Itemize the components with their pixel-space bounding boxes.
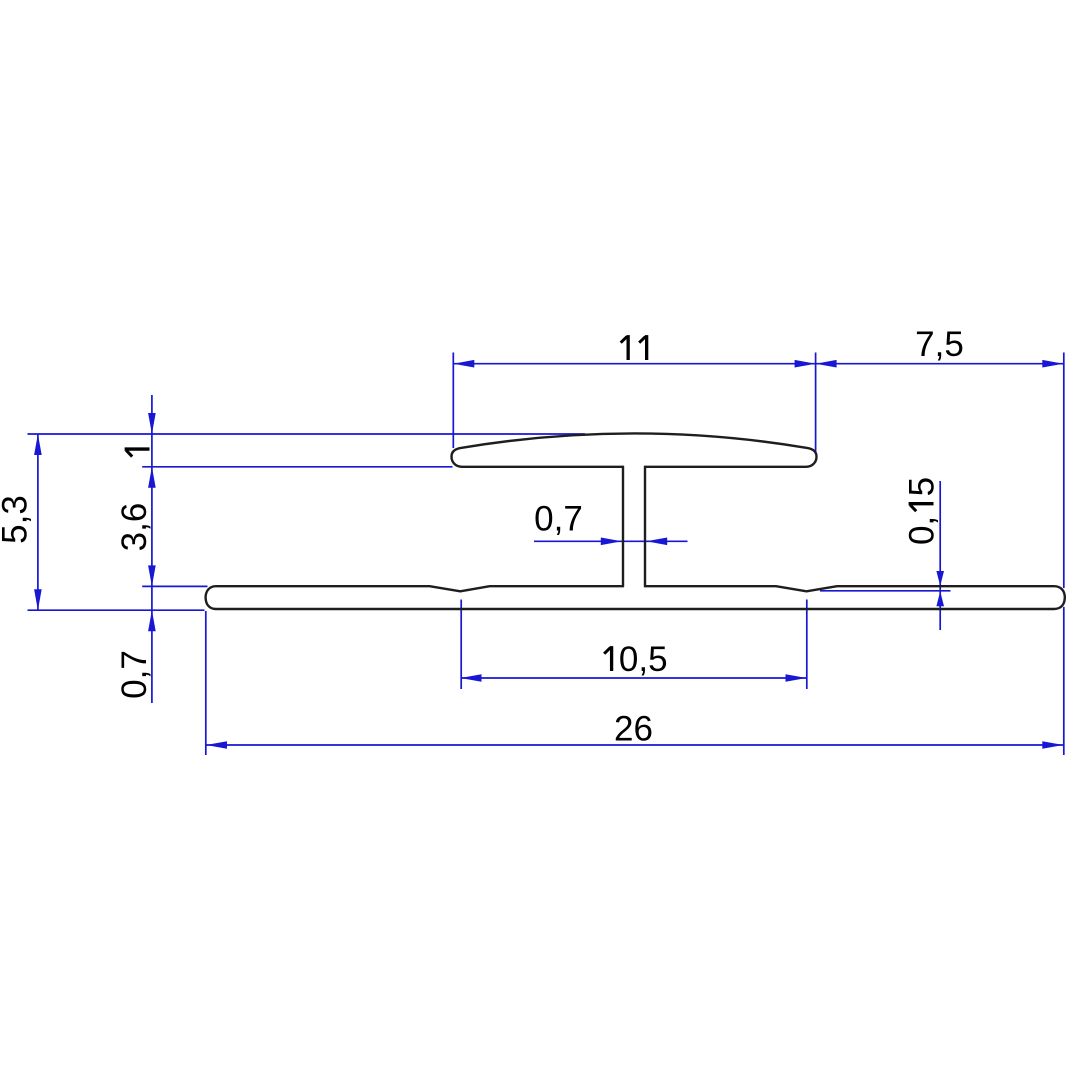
svg-text:0,5: 0,5 — [619, 640, 668, 679]
svg-text:5: 5 — [903, 477, 942, 496]
svg-text:7,5: 7,5 — [915, 325, 964, 364]
svg-text:0,7: 0,7 — [534, 500, 583, 539]
svg-text:3,6: 3,6 — [115, 503, 154, 552]
svg-text:5,3: 5,3 — [0, 495, 35, 544]
svg-text:0,: 0, — [903, 516, 942, 545]
svg-text:0,7: 0,7 — [115, 650, 154, 699]
svg-text:26: 26 — [614, 710, 653, 749]
